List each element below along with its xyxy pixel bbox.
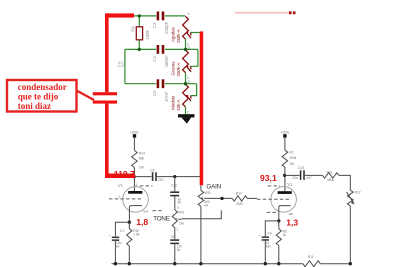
grid V1b	[257, 198, 292, 200]
wire R13 to V1b grid	[247, 197, 257, 199]
wire treble pot wiper to highlighted net	[191, 32, 201, 34]
wire VR1 bottom to bus	[200, 206, 202, 263]
wire C10 to R11	[305, 174, 323, 176]
wire cathode to C1 branch	[115, 222, 129, 236]
svg-text:out: out	[289, 212, 294, 216]
svg-text:R13: R13	[236, 192, 242, 196]
svg-text:110,7: 110,7	[114, 169, 135, 179]
svg-text:R1: R1	[289, 151, 293, 155]
grid V1a	[109, 198, 142, 200]
svg-text:22n: 22n	[292, 176, 298, 180]
capacitor C3 220pF	[157, 12, 160, 21]
wire row2 green	[125, 48, 198, 50]
faded red line top	[235, 12, 288, 14]
pin label out	[267, 211, 277, 213]
svg-text:Agudos: Agudos	[170, 27, 175, 42]
svg-text:V1: V1	[287, 182, 293, 187]
svg-text:+250v: +250v	[130, 131, 139, 135]
wire node down to C12	[174, 177, 176, 192]
wire red highlight bottom horizontal	[105, 174, 135, 179]
svg-text:C4: C4	[267, 231, 271, 235]
svg-text:C5: C5	[152, 90, 157, 96]
plate bar V1a	[128, 191, 142, 194]
svg-text:1: 1	[176, 228, 178, 232]
svg-text:TONE: TONE	[153, 216, 170, 223]
wire R14 to plate node	[133, 168, 135, 192]
resistor R11 bottom	[303, 261, 320, 267]
annotation callout box	[7, 80, 77, 112]
svg-text:VR2: VR2	[178, 211, 185, 215]
svg-text:C3: C3	[152, 22, 157, 28]
svg-text:2: 2	[187, 110, 189, 114]
svg-text:C12: C12	[171, 184, 177, 188]
wire VR1 wiper to R13	[208, 197, 233, 199]
svg-text:R11: R11	[308, 255, 314, 259]
wire cathode to C4 branch	[265, 221, 279, 237]
svg-text:toni diaz: toni diaz	[18, 101, 51, 111]
svg-text:6v: 6v	[116, 245, 120, 249]
node R4 top	[138, 14, 141, 17]
node R4 bottom	[138, 48, 141, 51]
svg-text:1,8: 1,8	[136, 217, 148, 227]
svg-text:X7: X7	[121, 61, 126, 67]
dashes right of plate lead	[140, 185, 153, 187]
svg-text:3: 3	[188, 12, 190, 16]
svg-text:6v: 6v	[177, 248, 181, 252]
svg-text:3: 3	[188, 80, 190, 84]
svg-text:3: 3	[188, 46, 190, 50]
svg-text:C4: C4	[152, 56, 157, 62]
svg-text:C9: C9	[150, 169, 154, 173]
capacitor C4 100nF	[157, 45, 160, 54]
svg-text:+: +	[259, 234, 261, 238]
node plate V1a	[133, 175, 136, 178]
wire red highlight left vertical upper	[105, 13, 109, 92]
wire treble pot bottom to row2	[185, 39, 187, 49]
svg-text:V1: V1	[118, 183, 124, 188]
wire row1 green	[134, 15, 186, 17]
potentiometer VR1 gain 500k-A	[200, 185, 202, 190]
wire bass pot wiper loop	[191, 49, 198, 66]
svg-text:100nF: 100nF	[164, 55, 169, 68]
wire plate node to C10	[285, 174, 300, 176]
wire R11 to master pot	[339, 175, 350, 190]
resistor R5	[278, 221, 280, 229]
resistor R13	[232, 196, 247, 201]
wire	[284, 138, 286, 151]
wire left link rows 2-3	[124, 49, 126, 83]
svg-text:47nF: 47nF	[164, 92, 169, 102]
node cathode V1a	[128, 221, 131, 224]
svg-text:2: 2	[119, 195, 121, 199]
svg-text:Graves: Graves	[170, 62, 175, 76]
wire	[133, 138, 135, 151]
svg-text:250k-A: 250k-A	[176, 29, 181, 43]
resistor R14	[132, 151, 138, 168]
svg-text:VR1: VR1	[204, 191, 211, 195]
wire bass pot bottom to row3	[185, 73, 187, 84]
svg-text:3: 3	[177, 206, 179, 210]
svg-text:+: +	[109, 234, 111, 238]
svg-text:GAIN: GAIN	[206, 183, 221, 190]
svg-text:1M: 1M	[179, 221, 184, 225]
wire bottom bus	[112, 263, 303, 265]
svg-text:+250v: +250v	[280, 131, 289, 135]
svg-text:1k: 1k	[283, 233, 287, 237]
potentiometer Agudos 250k-A	[183, 17, 189, 40]
wire red highlight right vertical	[200, 31, 204, 185]
svg-text:condensador: condensador	[18, 82, 67, 92]
svg-text:C1: C1	[120, 229, 124, 233]
node coupling junction	[173, 175, 176, 178]
resistor R4 100k	[138, 16, 140, 50]
svg-text:1.5k: 1.5k	[133, 233, 140, 237]
capacitor C6	[170, 239, 179, 241]
potentiometer Medios 10k-A	[183, 84, 189, 107]
svg-text:Medios: Medios	[170, 96, 175, 110]
triode V1a envelope	[123, 187, 149, 213]
cathode V1a	[129, 206, 142, 223]
node plate V1b	[283, 174, 286, 177]
node wiper junction	[220, 197, 223, 200]
svg-text:22n: 22n	[158, 178, 164, 182]
potentiometer Graves 250k-A	[183, 50, 189, 73]
wire row3 green	[125, 83, 197, 85]
resistor R1	[282, 150, 288, 167]
svg-text:1: 1	[136, 183, 138, 187]
svg-text:6v: 6v	[178, 201, 182, 205]
capacitor C12	[170, 191, 179, 193]
node cathode V1b	[277, 219, 280, 222]
wire master pot to bus	[349, 206, 351, 264]
svg-text:que te dijo: que te dijo	[18, 92, 59, 102]
svg-text:1W: 1W	[139, 166, 145, 170]
svg-text:2M2: 2M2	[236, 202, 243, 206]
plate bar V1b	[278, 191, 292, 194]
capacitor C9 22n	[152, 172, 154, 181]
svg-text:100k: 100k	[289, 156, 297, 160]
svg-text:16v: 16v	[266, 245, 272, 249]
svg-text:R11: R11	[327, 170, 333, 174]
node bus junctions	[114, 262, 117, 265]
svg-text:C6: C6	[171, 235, 175, 239]
cathode V1b	[279, 206, 291, 221]
svg-text:93,1: 93,1	[260, 173, 277, 183]
wire red highlight top horizontal	[105, 13, 134, 17]
wire mid pot bottom to ground	[185, 107, 187, 114]
wire plate node to C9	[134, 176, 151, 178]
svg-text:100k: 100k	[145, 29, 150, 39]
wire red highlight left vertical lower	[105, 104, 109, 174]
svg-text:220pF: 220pF	[164, 21, 169, 34]
svg-text:68k: 68k	[139, 157, 145, 161]
svg-text:1,3: 1,3	[286, 217, 298, 227]
potentiometer master volume	[347, 190, 353, 206]
annotation leader line	[77, 91, 95, 101]
svg-text:460k: 460k	[327, 178, 335, 182]
svg-text:R4: R4	[131, 26, 136, 32]
wire C9 to node	[157, 176, 201, 178]
svg-text:out: out	[143, 209, 148, 213]
svg-text:4n7: 4n7	[306, 176, 312, 180]
dashes left of plate lead	[268, 185, 280, 187]
svg-text:250k-A: 250k-A	[176, 63, 181, 77]
ground	[178, 114, 195, 117]
wire mid pot wiper loop	[191, 84, 197, 96]
wire R1 to plate node	[284, 167, 286, 191]
capacitor C10	[300, 170, 302, 180]
capacitor C5 47nF	[157, 79, 160, 88]
svg-text:C10: C10	[298, 166, 304, 170]
svg-text:R14: R14	[139, 152, 145, 156]
svg-text:10k-A: 10k-A	[176, 99, 181, 110]
capacitor highlighted (red)	[93, 92, 117, 95]
triode V1b envelope	[271, 187, 297, 213]
svg-text:R12: R12	[355, 190, 361, 194]
resistor R10	[128, 222, 130, 228]
resistor R11 470k	[323, 173, 340, 178]
wire VR2 wiper to gain net	[182, 210, 222, 218]
